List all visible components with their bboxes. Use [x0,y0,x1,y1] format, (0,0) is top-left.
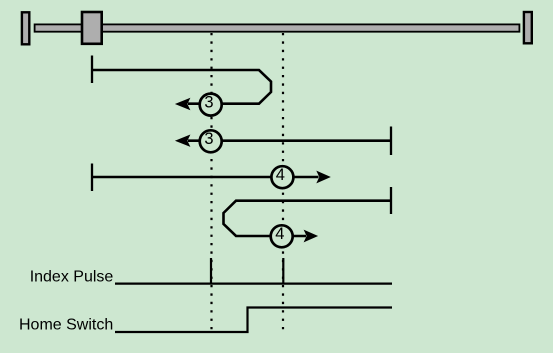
trajectory 2 end tick [390,127,392,156]
trajectory 2 path (method 3 second move, leftwards) [188,139,391,142]
circle 3 (first) [200,94,222,116]
circle 4 (first) [271,166,293,188]
svg-text:3: 3 [204,93,213,111]
trajectory 4 arrowhead (right) [304,230,319,243]
index pulse tick 2 [282,258,284,284]
Home Switch signal (low, rising edge, high) [115,308,392,333]
slider block (home switch cam) [82,12,102,44]
svg-text:4: 4 [276,166,285,184]
circle 3 (second) [200,130,222,152]
svg-text:4: 4 [275,225,284,243]
dotted line at x=211 (home switch off edge) [210,33,212,330]
trajectory 3 arrowhead (right) [316,171,331,184]
trajectory 2 arrowhead (left) [175,135,191,147]
svg-text:3: 3 [204,130,213,148]
trajectory 1 path (method 3 first move, right then U-turn back left) [92,70,271,104]
rail bar [35,24,520,31]
trajectory 3 start tick [91,164,93,192]
trajectory 3 path (method 4 first move, rightwards) [92,176,319,179]
trajectory 1 start tick [91,56,93,84]
right end stop [524,12,532,43]
svg-text:Home Switch: Home Switch [19,316,113,333]
Index Pulse baseline [115,283,392,285]
left end stop [22,12,29,44]
trajectory 4 end tick [390,187,392,214]
dotted line at x=283 (home switch on edge) [282,33,284,330]
index pulse tick 1 [210,258,212,284]
svg-text:Index Pulse: Index Pulse [30,269,114,286]
trajectory 4 path (method 4 second move, left then U-turn back right) [224,201,392,236]
trajectory 1 arrowhead (left) [175,98,191,110]
circle 4 (second) [271,225,293,247]
